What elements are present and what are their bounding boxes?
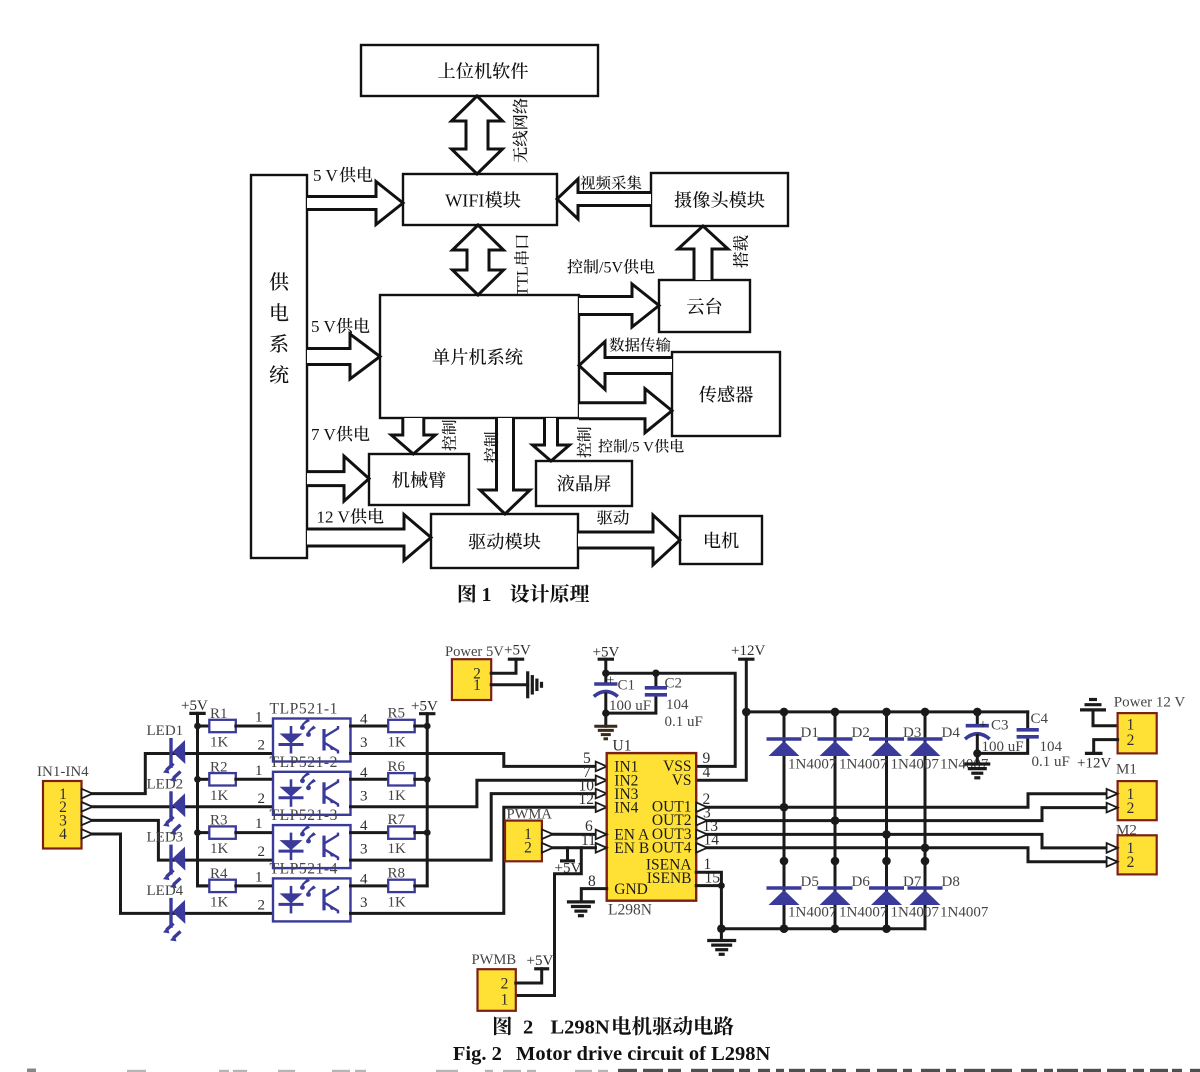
svg-text:104: 104 [666, 697, 689, 713]
svg-text:+12V: +12V [1077, 756, 1111, 772]
svg-text:EN B: EN B [614, 840, 649, 857]
svg-text:3: 3 [360, 788, 368, 804]
svg-text:1N4007: 1N4007 [788, 757, 837, 773]
svg-text:+5V: +5V [504, 643, 531, 659]
svg-text:GND: GND [614, 881, 648, 898]
svg-text:/5V: /5V [599, 260, 623, 277]
svg-text:4: 4 [360, 871, 368, 887]
svg-text:C3: C3 [991, 718, 1009, 734]
svg-text:/5 V: /5 V [628, 440, 654, 456]
svg-text:TLP521-3: TLP521-3 [270, 807, 339, 824]
svg-text:R6: R6 [388, 759, 406, 775]
svg-text:3: 3 [360, 735, 368, 751]
svg-text:LED4: LED4 [147, 883, 184, 899]
svg-text:+: + [607, 674, 615, 689]
svg-text:Power 5V: Power 5V [445, 644, 504, 660]
svg-text:100 uF: 100 uF [982, 739, 1024, 755]
svg-text:D1: D1 [801, 725, 819, 741]
svg-text:C1: C1 [618, 678, 636, 694]
svg-text:1K: 1K [388, 894, 407, 910]
svg-text:2: 2 [524, 840, 532, 857]
svg-text:D6: D6 [852, 874, 871, 890]
svg-text:L298N: L298N [608, 902, 652, 919]
svg-text:104: 104 [1040, 739, 1063, 755]
svg-text:4: 4 [360, 818, 368, 834]
svg-text:1K: 1K [210, 841, 229, 857]
svg-text:OUT4: OUT4 [652, 839, 692, 856]
svg-text:4: 4 [59, 826, 67, 843]
svg-text:R7: R7 [388, 812, 406, 828]
svg-text:3: 3 [360, 895, 368, 911]
svg-text:R3: R3 [210, 813, 228, 829]
svg-text:5 V: 5 V [311, 317, 336, 336]
svg-text:2: 2 [1127, 854, 1135, 871]
svg-text:1: 1 [255, 763, 263, 779]
svg-text:PWMB: PWMB [472, 952, 517, 968]
svg-text:1K: 1K [210, 894, 229, 910]
svg-text:1N4007: 1N4007 [788, 905, 837, 921]
svg-text:+5V: +5V [527, 953, 554, 969]
svg-text:TLP521-2: TLP521-2 [270, 754, 339, 771]
svg-text:+5V: +5V [181, 698, 208, 714]
svg-text:+5V: +5V [411, 699, 438, 715]
svg-text:TLP521-4: TLP521-4 [270, 860, 339, 877]
svg-text:D5: D5 [801, 874, 819, 890]
svg-text:1: 1 [482, 584, 492, 606]
svg-text:2: 2 [258, 844, 266, 860]
svg-text:R2: R2 [210, 759, 228, 775]
svg-text:100 uF: 100 uF [609, 698, 651, 714]
svg-text:2: 2 [1127, 800, 1135, 817]
svg-text:7 V: 7 V [311, 425, 336, 444]
svg-text:IN1-IN4: IN1-IN4 [37, 764, 89, 780]
svg-text:1N4007: 1N4007 [839, 757, 888, 773]
svg-text:11: 11 [581, 832, 596, 849]
svg-text:1: 1 [255, 869, 263, 885]
svg-text:2: 2 [258, 738, 266, 754]
svg-text:LED2: LED2 [147, 776, 184, 792]
svg-text:+12V: +12V [731, 643, 765, 659]
svg-text:TLP521-1: TLP521-1 [270, 701, 339, 718]
svg-text:1N4007: 1N4007 [839, 905, 888, 921]
svg-text:D2: D2 [852, 725, 870, 741]
svg-text:1N4007: 1N4007 [891, 905, 940, 921]
svg-text:1: 1 [473, 677, 481, 694]
svg-text:C4: C4 [1031, 711, 1049, 727]
svg-text:IN4: IN4 [614, 799, 638, 816]
svg-text:ISENB: ISENB [647, 870, 692, 887]
svg-text:1K: 1K [210, 788, 229, 804]
svg-text:1K: 1K [388, 735, 407, 751]
svg-text:12 V: 12 V [317, 508, 351, 527]
svg-text:D8: D8 [942, 874, 960, 890]
svg-text:4: 4 [360, 765, 368, 781]
svg-text:WIFI: WIFI [445, 191, 484, 211]
svg-text:LED1: LED1 [147, 723, 184, 739]
svg-text:2: 2 [258, 897, 266, 913]
svg-text:2: 2 [258, 791, 266, 807]
svg-text:Motor drive circuit of L298N: Motor drive circuit of L298N [516, 1043, 770, 1065]
svg-text:1N4007: 1N4007 [940, 905, 989, 921]
svg-text:8: 8 [588, 873, 596, 890]
svg-text:TTL: TTL [513, 266, 532, 296]
svg-text:L298N: L298N [551, 1017, 610, 1039]
svg-text:VS: VS [672, 772, 692, 789]
svg-text:3: 3 [360, 842, 368, 858]
svg-text:+: + [979, 718, 987, 733]
svg-text:4: 4 [360, 712, 368, 728]
svg-text:2: 2 [501, 976, 509, 993]
svg-text:LED3: LED3 [147, 830, 184, 846]
svg-text:5 V: 5 V [313, 166, 338, 185]
svg-text:1N4007: 1N4007 [891, 757, 940, 773]
svg-text:D4: D4 [942, 725, 961, 741]
svg-text:R4: R4 [210, 866, 228, 882]
svg-text:Fig. 2: Fig. 2 [453, 1043, 502, 1065]
svg-text:2: 2 [523, 1017, 533, 1039]
svg-text:1K: 1K [210, 735, 229, 751]
svg-text:0.1 uF: 0.1 uF [665, 714, 703, 730]
svg-text:R8: R8 [388, 865, 406, 881]
svg-text:1K: 1K [388, 841, 407, 857]
svg-text:C2: C2 [665, 676, 683, 692]
svg-text:1: 1 [255, 710, 263, 726]
svg-text:R1: R1 [210, 706, 228, 722]
svg-text:1: 1 [501, 992, 509, 1009]
svg-text:1K: 1K [388, 788, 407, 804]
svg-text:Power 12 V: Power 12 V [1114, 695, 1186, 711]
svg-text:2: 2 [1127, 732, 1135, 749]
svg-text:M1: M1 [1116, 762, 1137, 778]
svg-text:4: 4 [703, 764, 711, 781]
svg-text:12: 12 [579, 791, 595, 808]
svg-text:R5: R5 [388, 706, 406, 722]
svg-text:0.1 uF: 0.1 uF [1032, 754, 1070, 770]
svg-text:1: 1 [255, 816, 263, 832]
